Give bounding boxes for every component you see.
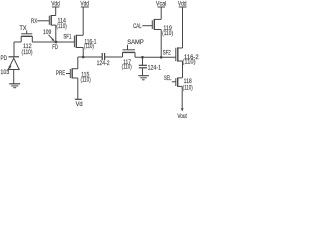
svg-text:Vdd: Vdd	[80, 0, 89, 7]
svg-text:SEL: SEL	[164, 75, 172, 82]
svg-text:FD: FD	[52, 44, 58, 51]
svg-text:(110): (110)	[81, 76, 91, 83]
svg-text:(110): (110)	[84, 43, 94, 50]
svg-text:PD: PD	[1, 55, 8, 62]
svg-text:SF2: SF2	[163, 50, 172, 57]
svg-text:109: 109	[43, 29, 52, 36]
svg-text:124-2: 124-2	[97, 60, 110, 67]
svg-text:(110): (110)	[183, 84, 193, 91]
svg-text:103: 103	[0, 69, 9, 76]
svg-text:SAMP: SAMP	[127, 39, 144, 46]
svg-text:(110): (110)	[22, 49, 33, 56]
svg-text:PRE: PRE	[56, 70, 65, 77]
svg-text:Vout: Vout	[177, 113, 187, 120]
svg-text:RX: RX	[31, 18, 38, 25]
svg-text:Vcal: Vcal	[156, 0, 166, 7]
svg-text:CAL: CAL	[133, 23, 142, 30]
svg-text:Vd: Vd	[76, 101, 83, 108]
svg-text:(110): (110)	[182, 58, 195, 65]
svg-text:TX: TX	[20, 25, 28, 32]
svg-text:(110): (110)	[56, 23, 66, 30]
svg-text:(110): (110)	[162, 30, 173, 37]
svg-text:124-1: 124-1	[148, 64, 162, 71]
svg-text:Vdd: Vdd	[51, 0, 60, 7]
svg-text:SF1: SF1	[63, 34, 71, 41]
svg-text:(110): (110)	[122, 63, 132, 70]
svg-text:Vdd: Vdd	[178, 0, 187, 7]
